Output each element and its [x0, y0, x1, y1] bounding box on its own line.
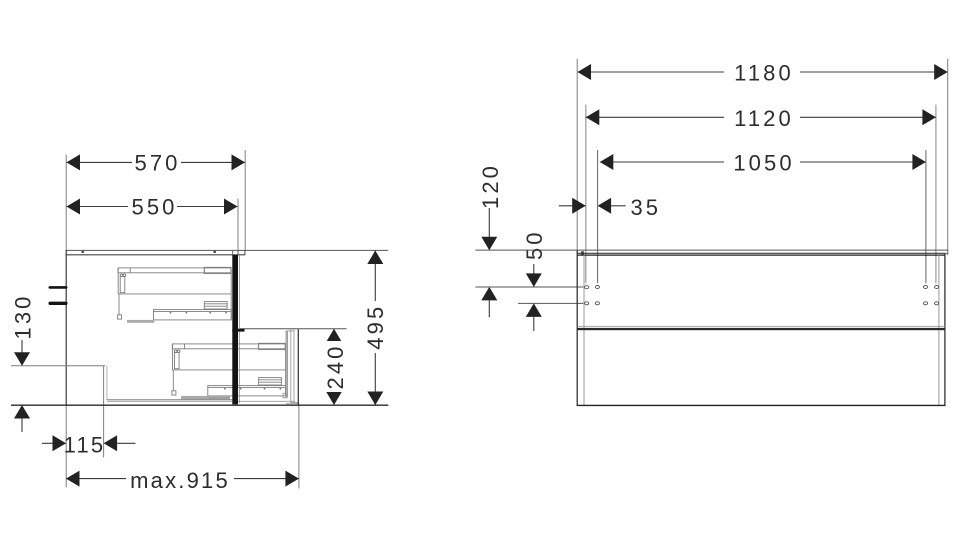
top reference line	[475, 249, 948, 251]
extension line left lower (for 115 / max.915)	[65, 405, 67, 488]
extension line 1180 right	[947, 59, 949, 250]
extension line max.915 right	[298, 404, 300, 489]
extension line 570 right	[244, 150, 246, 250]
cabinet right inner line	[938, 255, 940, 405]
extension line 550 right	[237, 199, 239, 251]
bottom shadow strip	[181, 397, 230, 400]
dim 570	[67, 150, 246, 175]
mounting holes	[585, 286, 939, 305]
svg-text:115: 115	[64, 432, 106, 457]
extension line 1050 left	[597, 150, 599, 283]
dim 1050	[600, 151, 926, 176]
hole row 2 reference line	[518, 302, 583, 304]
drawer divider	[577, 325, 945, 327]
extension line 1120 left	[585, 105, 587, 284]
dim 550	[67, 194, 238, 219]
dim 1120	[586, 106, 936, 131]
cabinet top band	[577, 252, 945, 254]
svg-text:1050: 1050	[733, 151, 794, 176]
countertop bottom edge	[66, 254, 246, 256]
open drawer front face	[297, 329, 299, 405]
dim 495 (vertical, right)	[363, 251, 388, 406]
svg-text:35: 35	[630, 195, 661, 220]
extension line 115 right	[103, 405, 105, 458]
svg-text:120: 120	[478, 163, 503, 209]
svg-text:130: 130	[10, 293, 35, 339]
extension line 1180 left	[576, 59, 578, 250]
dim 120 (vertical)	[478, 163, 503, 317]
svg-text:240: 240	[323, 343, 348, 389]
lower drawer top tab	[232, 329, 244, 332]
svg-text:495: 495	[363, 304, 388, 350]
front panel (black, upper drawer front in section)	[232, 255, 238, 404]
cabinet right edge	[944, 253, 946, 405]
wall bracket upper	[49, 286, 68, 289]
lower drawer mechanism (open)	[172, 343, 286, 399]
extension line left (cabinet back) upper	[65, 155, 67, 251]
cabinet bottom edge	[577, 404, 946, 406]
small bracket mark top-left	[581, 251, 584, 254]
svg-text:max.915: max.915	[130, 468, 230, 493]
extension line 1050 right	[925, 150, 927, 283]
countertop front cap	[244, 250, 246, 254]
ground baseline	[11, 404, 388, 406]
dim 240 (vertical)	[323, 329, 348, 405]
dim 130 (vertical, left)	[10, 293, 35, 432]
top reference line (extends to 495 dim)	[66, 249, 389, 251]
cabinet left edge	[576, 250, 578, 405]
countertop front verticals	[232, 250, 234, 254]
dim 115	[42, 432, 136, 457]
top right step	[947, 250, 949, 255]
step vertical	[103, 366, 105, 405]
cabinet left inner line	[583, 255, 585, 405]
drawer divider reference line (240)	[239, 328, 347, 330]
dim 1180	[578, 61, 948, 86]
svg-text:50: 50	[522, 229, 547, 260]
cabinet bottom panel	[107, 399, 232, 401]
hole row 1 reference line	[475, 286, 583, 288]
svg-text:1180: 1180	[734, 61, 794, 86]
dim 35	[559, 195, 661, 220]
upper drawer mechanism	[118, 267, 232, 323]
wall bracket lower	[49, 302, 68, 305]
cabinet back panel	[65, 250, 67, 405]
open drawer front panel	[286, 331, 288, 398]
step line (130 reference)	[11, 365, 105, 367]
extension line 1120 right	[935, 105, 937, 284]
dim max.915	[66, 468, 299, 493]
svg-text:570: 570	[134, 150, 180, 175]
dim 50 (vertical)	[522, 226, 547, 331]
svg-text:550: 550	[131, 194, 177, 219]
front panel inner line	[238, 255, 240, 403]
countertop tick marks	[82, 251, 84, 253]
svg-text:1120: 1120	[734, 106, 794, 131]
